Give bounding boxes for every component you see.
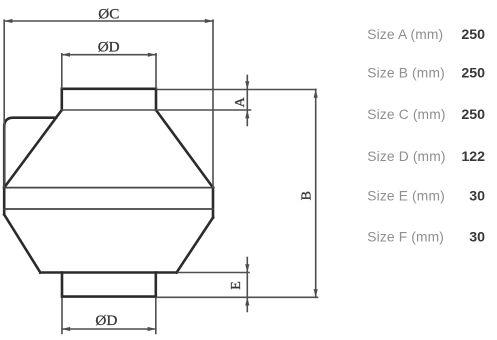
- svg-text:A: A: [233, 96, 248, 107]
- svg-text:ØD: ØD: [95, 312, 117, 329]
- svg-text:122: 122: [461, 149, 485, 165]
- dimension D (top) extension lines: [62, 54, 156, 88]
- svg-text:Size B (mm): Size B (mm): [367, 66, 445, 81]
- label ØC: [98, 6, 119, 23]
- dimension E / B bottom extension line: [157, 296, 318, 298]
- svg-text:Size E (mm): Size E (mm): [367, 189, 445, 204]
- dimension line A (outside arrows): [246, 76, 248, 126]
- bottom shoulder: [40, 271, 176, 274]
- svg-text:ØD: ØD: [98, 38, 120, 55]
- svg-text:B: B: [300, 191, 315, 200]
- dimension A top extension line (also B top reference): [157, 89, 316, 91]
- size table row F: [367, 230, 485, 246]
- A arrowheads: [245, 81, 249, 118]
- size table row E: [367, 189, 485, 205]
- terminal box (rounded corner, upper left): [4, 118, 56, 188]
- dimension E top extension line: [178, 272, 249, 274]
- B arrowheads: [314, 90, 318, 298]
- svg-text:30: 30: [469, 189, 485, 205]
- dimension line ØD bottom: [62, 328, 156, 330]
- label ØD bottom: [95, 312, 117, 329]
- E arrowheads: [245, 264, 249, 305]
- dimension C extension lines: [4, 20, 213, 186]
- dimension A bottom extension line: [62, 109, 251, 111]
- label E: [229, 281, 244, 290]
- svg-text:30: 30: [469, 230, 485, 246]
- dimension line ØC: [4, 20, 213, 22]
- size table row B: [367, 66, 485, 82]
- size table row D: [367, 149, 485, 165]
- size table row A: [367, 27, 485, 43]
- fan body: bottom spigot: [62, 273, 156, 297]
- svg-text:250: 250: [461, 27, 485, 43]
- svg-text:Size A (mm): Size A (mm): [367, 27, 443, 42]
- svg-text:Size C (mm): Size C (mm): [367, 107, 445, 122]
- dimension line E (outside arrows): [246, 258, 248, 312]
- label A: [233, 96, 248, 107]
- size table row C: [367, 107, 485, 123]
- fan body: lower cone right slope: [177, 218, 213, 273]
- ØD top arrowheads: [62, 53, 156, 57]
- svg-text:Size F (mm): Size F (mm): [367, 230, 444, 245]
- dimension line B: [315, 90, 317, 298]
- label ØD top: [98, 38, 120, 55]
- svg-text:Size D (mm): Size D (mm): [367, 149, 445, 164]
- fan body: upper cone right slope: [156, 110, 213, 188]
- fan body: top spigot: [62, 89, 156, 110]
- svg-text:ØC: ØC: [98, 6, 119, 23]
- fan body: upper cone left slope: [4, 110, 62, 188]
- svg-text:250: 250: [461, 66, 485, 82]
- label B: [300, 191, 315, 200]
- dimension D (bottom) extension lines: [62, 298, 156, 333]
- ØD bottom arrowheads: [62, 327, 156, 331]
- svg-text:E: E: [229, 281, 244, 290]
- fan body: center band side edges: [4, 188, 213, 218]
- fan body: lower cone left slope: [4, 215, 40, 273]
- ØC arrowheads: [4, 19, 213, 23]
- band horizontal seam lines: [4, 188, 213, 209]
- svg-text:250: 250: [461, 107, 485, 123]
- dimension line ØD top: [62, 54, 156, 56]
